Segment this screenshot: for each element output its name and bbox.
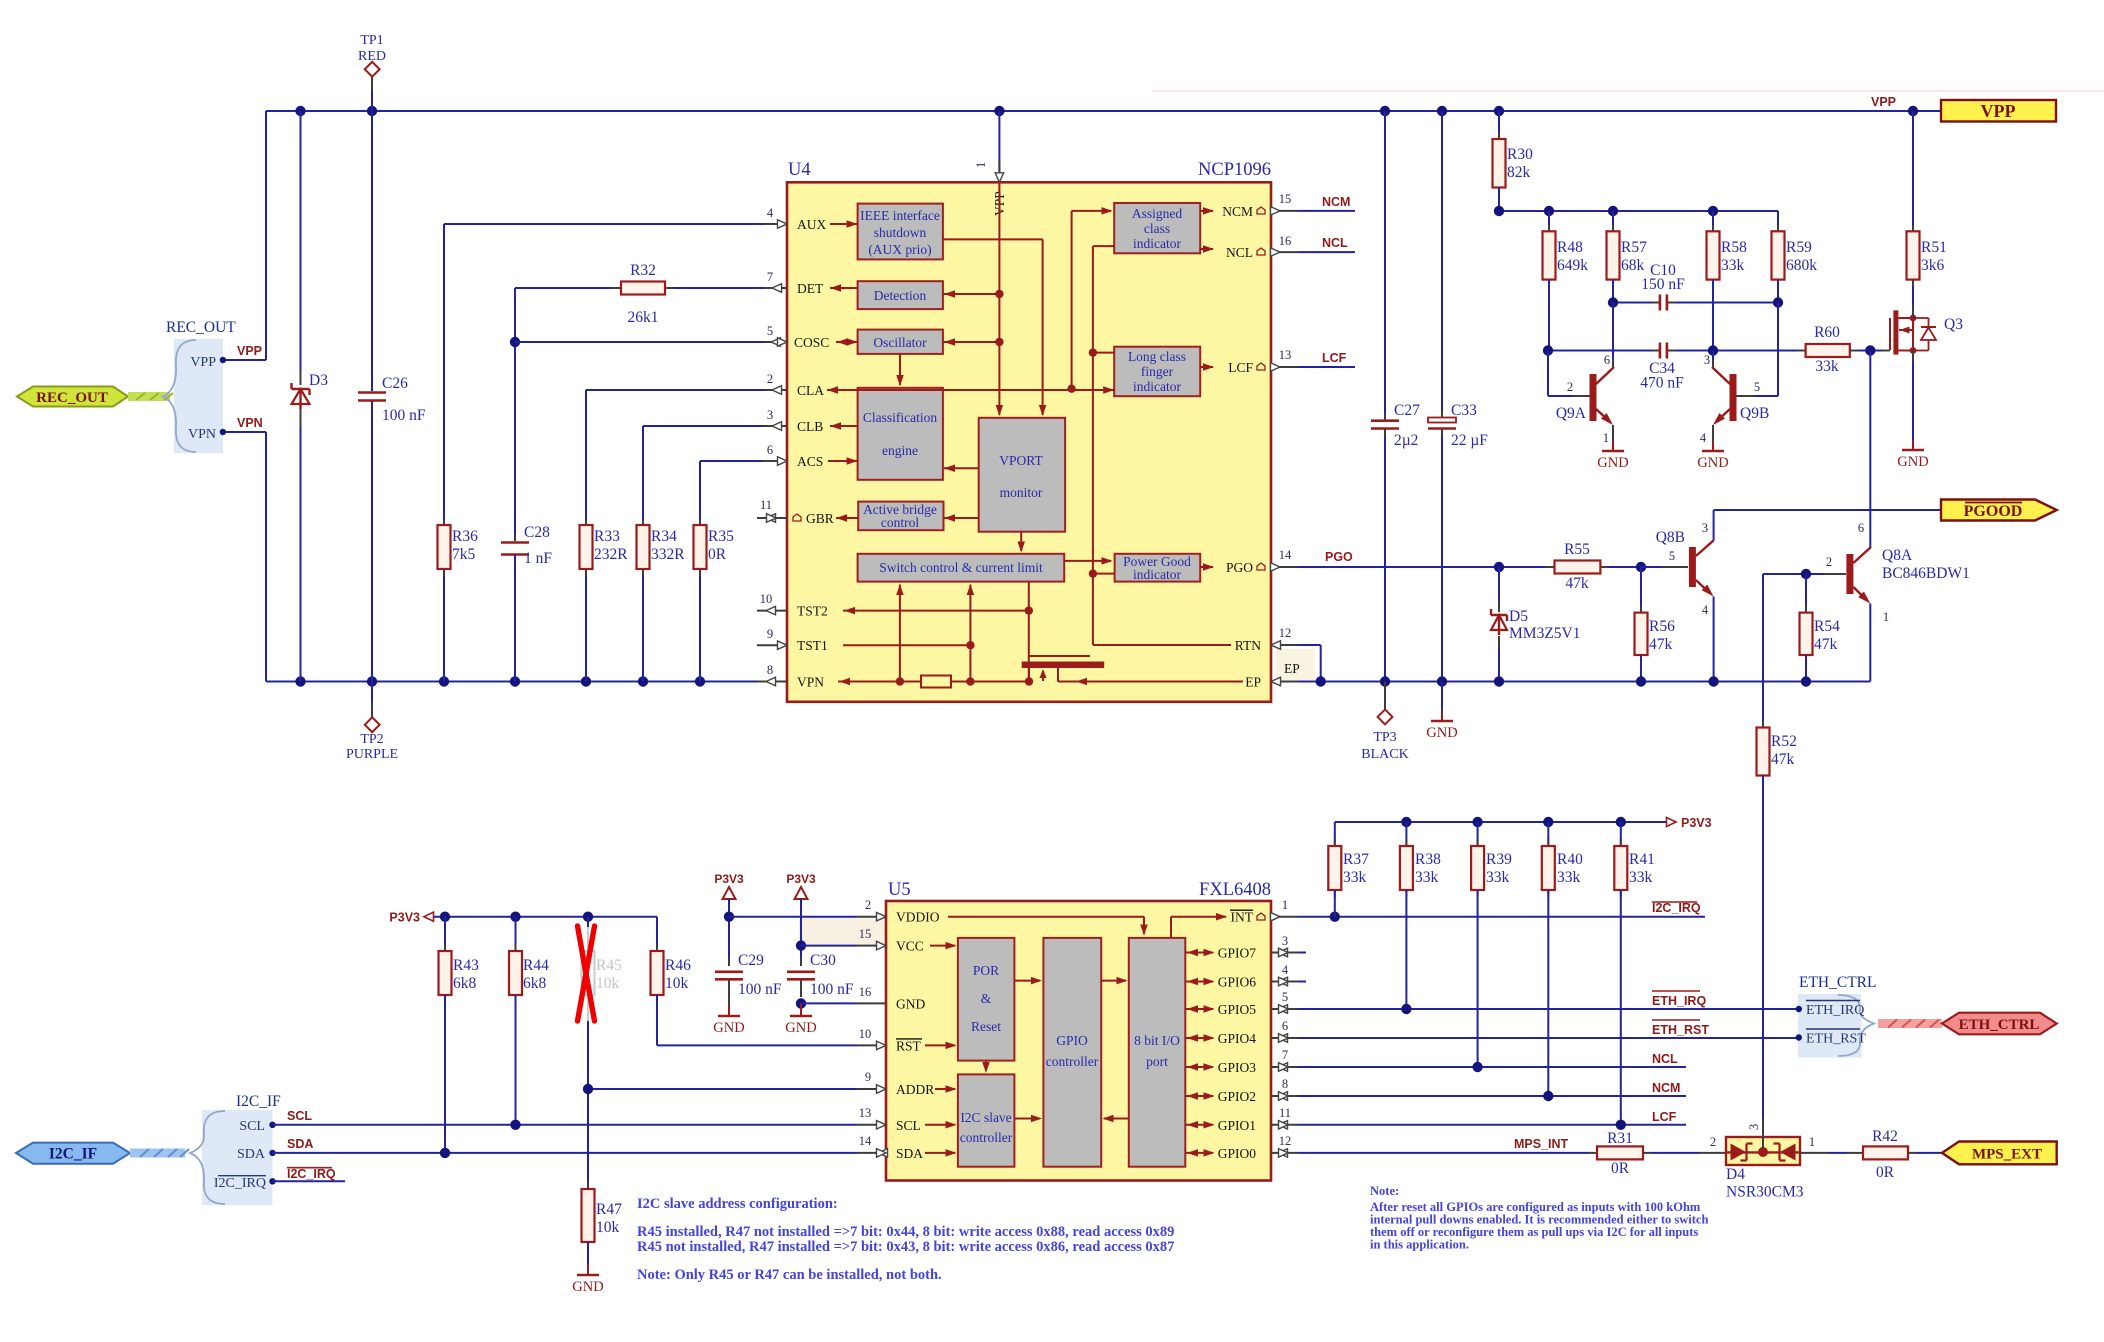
svg-text:8: 8 [767, 663, 773, 677]
svg-text:R35: R35 [708, 528, 734, 545]
svg-text:7k5: 7k5 [452, 546, 476, 563]
testpoint TP2 [371, 682, 373, 703]
svg-text:8: 8 [1282, 1077, 1288, 1091]
svg-text:indicator: indicator [1133, 567, 1181, 582]
pin 10 TST2 stub [757, 610, 787, 612]
svg-text:I2C slave address configuratio: I2C slave address configuration: [637, 1196, 838, 1212]
svg-text:U4: U4 [788, 160, 811, 180]
wire Q9A base drop [1547, 351, 1549, 397]
wire port to GPIO0 [1185, 1152, 1213, 1154]
svg-text:GND: GND [713, 1020, 744, 1036]
wire R42 to MPS_EXT [1908, 1152, 1916, 1154]
svg-text:IEEE interface: IEEE interface [860, 208, 940, 223]
block I2C slave controller [958, 1074, 1015, 1166]
svg-text:RTN: RTN [1235, 638, 1261, 653]
svg-text:R32: R32 [630, 262, 656, 279]
resistor R30 [1498, 111, 1500, 140]
internal MOSFET body arrow [1042, 671, 1044, 681]
wire P3V3 row right [1335, 821, 1666, 823]
resistor R40 [1547, 822, 1549, 846]
block VPORT monitor [979, 418, 1065, 532]
wire switch drive vertical left [899, 585, 901, 682]
wire SDA arrow [925, 1152, 955, 1154]
svg-text:VPN: VPN [797, 675, 824, 690]
pin 12 RTN stub [1271, 644, 1298, 646]
wire POR to GPIO controller [1014, 980, 1040, 982]
svg-text:R59: R59 [1786, 239, 1812, 256]
junction P3V3 R45 [583, 912, 593, 922]
svg-text:NCP1096: NCP1096 [1198, 160, 1271, 180]
wire NCL-side vertical [1093, 245, 1114, 247]
junction rail R34 [638, 676, 648, 686]
svg-text:649k: 649k [1557, 257, 1588, 274]
wire R38 to ETH_IRQ [1405, 890, 1407, 1009]
body diode Q3 [1913, 317, 1929, 319]
wire gate node down [1869, 351, 1871, 536]
wire R45 R47 vertical [587, 917, 589, 927]
pin 6 GPIO4 stub [1271, 1037, 1298, 1039]
svg-text:BC846BDW1: BC846BDW1 [1882, 565, 1970, 582]
wire VPN bottom rail left [266, 681, 757, 683]
resistor R60 [1806, 344, 1850, 357]
pin 10 RST stub [857, 1044, 886, 1046]
svg-text:R51: R51 [1921, 239, 1947, 256]
junction top rail D3 [295, 106, 305, 116]
pin 7 GPIO3 stub [1271, 1066, 1298, 1068]
resistor R54 vertical [1805, 574, 1807, 613]
resistor R42 [1863, 1146, 1908, 1159]
wire ACS to Classification [828, 460, 858, 462]
junction rail Q8B emitter [1708, 676, 1718, 686]
svg-text:&: & [981, 991, 992, 1006]
svg-text:NCM: NCM [1322, 195, 1350, 209]
svg-text:33k: 33k [1721, 257, 1745, 274]
block Long class finger indicator [1114, 347, 1200, 397]
svg-text:P3V3: P3V3 [714, 872, 744, 886]
power arrow P3V3 at C29 [723, 887, 736, 899]
junction P3V3 R41 [1616, 817, 1626, 827]
svg-text:9: 9 [767, 627, 773, 641]
svg-text:DET: DET [797, 281, 824, 296]
svg-text:NSR30CM3: NSR30CM3 [1726, 1184, 1804, 1201]
wire gate vertical TST2 [1028, 582, 1030, 682]
wire LCF output [1200, 366, 1213, 368]
pin 11 GBR stub [757, 517, 787, 519]
svg-text:Note: Only R45 or R47 can be i: Note: Only R45 or R47 can be installed, … [637, 1267, 942, 1283]
wire R31 to D4 [1643, 1152, 1651, 1154]
diode D3 vertical wire [300, 111, 302, 371]
svg-text:REC_OUT: REC_OUT [36, 390, 108, 406]
junction rail R36 [439, 676, 449, 686]
wire R48 to C34 node [1548, 280, 1550, 351]
wire R43 to SDA [444, 995, 446, 1153]
svg-text:R37: R37 [1343, 851, 1369, 868]
svg-text:GND: GND [896, 996, 925, 1011]
wire R34 vertical [642, 426, 644, 525]
pin 9 TST1 stub [757, 644, 787, 646]
wire C10 row [1613, 302, 1652, 304]
junction rail R57 [1608, 206, 1618, 216]
svg-text:11: 11 [760, 498, 772, 512]
junction rail R56 [1636, 676, 1646, 686]
cable REC_OUT [128, 392, 170, 401]
junction rail D5 [1494, 676, 1504, 686]
diode D3 [300, 370, 302, 385]
svg-text:2: 2 [1710, 1135, 1716, 1149]
svg-text:10k: 10k [596, 975, 620, 992]
svg-text:232R: 232R [594, 546, 628, 563]
svg-text:U5: U5 [888, 880, 911, 900]
junction rail C27/TP3 [1380, 676, 1390, 686]
svg-text:VPP: VPP [1981, 101, 2016, 121]
wire CLB from Classification [830, 425, 858, 427]
diode D4 right element [1780, 1144, 1796, 1161]
svg-text:13: 13 [1279, 348, 1292, 362]
junction rail C28 [510, 676, 520, 686]
svg-text:33k: 33k [1486, 869, 1510, 886]
svg-text:R54: R54 [1814, 618, 1840, 635]
junction C10 left [1608, 297, 1618, 307]
svg-text:100 nF: 100 nF [810, 981, 854, 998]
junction top rail R30 [1494, 106, 1504, 116]
diode D4 body [1726, 1137, 1800, 1165]
wire EP internal [1058, 681, 1243, 683]
junction PGO R56 [1636, 562, 1646, 572]
sense resistor internal [921, 676, 951, 688]
wire VCC row [801, 945, 857, 947]
svg-text:TP3: TP3 [1373, 730, 1396, 745]
svg-text:5: 5 [767, 324, 773, 338]
diode D4 pin3 link [1762, 1118, 1764, 1148]
wire D4 to R42 [1800, 1152, 1828, 1154]
svg-text:10: 10 [760, 592, 773, 606]
pin 3 GPIO7 stub [1271, 952, 1298, 954]
svg-text:TP2: TP2 [360, 732, 383, 747]
junction P3V3 R38 [1401, 817, 1411, 827]
resistor R56 vertical [1640, 567, 1642, 613]
svg-text:I2C_IF: I2C_IF [49, 1146, 97, 1163]
svg-text:33k: 33k [1343, 869, 1367, 886]
wire VPORT to Classification [944, 467, 979, 469]
capacitor C33 wire [1441, 111, 1443, 416]
pin 11 GPIO1 stub [1271, 1124, 1298, 1126]
wire VPP left vertical [265, 111, 267, 360]
pin 5 GPIO5 stub [1271, 1008, 1298, 1010]
svg-text:C33: C33 [1451, 402, 1477, 419]
wire DET to COSC vertical [514, 288, 516, 540]
svg-text:Q3: Q3 [1944, 316, 1963, 333]
svg-text:ETH_RST: ETH_RST [1806, 1032, 1866, 1047]
ground Q9A [1612, 441, 1614, 451]
pin 6 ACS stub [763, 460, 787, 462]
svg-text:VPN: VPN [188, 427, 216, 442]
svg-text:controller: controller [960, 1130, 1013, 1145]
svg-text:R46: R46 [665, 957, 691, 974]
svg-text:R48: R48 [1557, 239, 1583, 256]
svg-text:6: 6 [1858, 521, 1864, 535]
pin 16 NCL stub [1271, 251, 1298, 253]
pin name GBR [793, 514, 801, 521]
junction COSC node [510, 337, 520, 347]
svg-text:RST: RST [896, 1038, 922, 1053]
resistor R41 [1620, 822, 1622, 846]
wire RTN to rail [1298, 644, 1321, 646]
connector REC_OUT flag [17, 387, 128, 407]
svg-text:CLB: CLB [797, 419, 823, 434]
wire R60 to gate node [1850, 350, 1858, 352]
svg-text:EP: EP [1284, 661, 1300, 676]
svg-text:control: control [881, 515, 919, 530]
svg-text:REC_OUT: REC_OUT [166, 319, 236, 336]
svg-text:100 nF: 100 nF [738, 981, 782, 998]
svg-text:VPP: VPP [190, 355, 216, 370]
svg-text:6: 6 [1282, 1019, 1288, 1033]
no-install cross R45 [578, 926, 595, 1021]
svg-text:GPIO3: GPIO3 [1218, 1060, 1257, 1075]
svg-text:13: 13 [859, 1106, 872, 1120]
svg-text:ETH_RST: ETH_RST [1652, 1023, 1709, 1037]
resistor R34 [642, 519, 644, 527]
wire RST row [657, 1044, 857, 1046]
resistor R46 [656, 917, 658, 952]
pin 4 GPIO6 stub [1271, 981, 1298, 983]
wire R35 vertical [699, 461, 701, 525]
svg-text:2: 2 [865, 898, 871, 912]
svg-text:GPIO2: GPIO2 [1218, 1089, 1256, 1104]
pin 1 INT stub [1271, 916, 1298, 918]
svg-text:NCL: NCL [1652, 1052, 1678, 1066]
svg-text:R60: R60 [1814, 324, 1840, 341]
svg-text:5: 5 [1282, 990, 1288, 1004]
svg-text:GND: GND [1426, 725, 1457, 741]
block Classification engine [858, 388, 943, 480]
junction rail R48 [1544, 206, 1554, 216]
IC U5 FXL6408 body [886, 901, 1271, 1181]
capacitor C28 [514, 534, 516, 541]
net flag MPS_EXT [1942, 1142, 2057, 1165]
block 8 bit IO port [1129, 938, 1186, 1167]
svg-text:9: 9 [865, 1070, 871, 1084]
capacitor C26 wire [371, 111, 373, 391]
pin 14 PGO stub [1271, 566, 1298, 568]
svg-text:332R: 332R [651, 546, 685, 563]
connector REC_OUT body [174, 339, 223, 453]
svg-text:47k: 47k [1649, 636, 1673, 653]
diode D4 left element [1731, 1144, 1747, 1161]
svg-text:P3V3: P3V3 [389, 911, 420, 925]
capacitor C10 [1659, 295, 1662, 311]
svg-text:150 nF: 150 nF [1641, 276, 1685, 293]
svg-text:GPIO0: GPIO0 [1218, 1146, 1257, 1161]
capacitor C27 wire [1384, 111, 1386, 419]
power flag VPP [1941, 100, 2056, 122]
wire SCL row [273, 1124, 858, 1126]
junction top rail C27 [1380, 106, 1390, 116]
net flag PGOOD [1941, 500, 2057, 521]
svg-text:NCL: NCL [1322, 236, 1348, 250]
svg-text:GND: GND [1697, 455, 1728, 471]
resistor R32 [515, 287, 612, 289]
junction rail R33 [581, 676, 591, 686]
wire VDDIO row right segment [729, 916, 857, 918]
wire R41 to LCF [1620, 890, 1622, 1125]
svg-text:1 nF: 1 nF [524, 550, 552, 567]
svg-text:D5: D5 [1509, 608, 1528, 625]
junction P3V3 R39 [1472, 817, 1482, 827]
wire INT internal [1170, 917, 1172, 938]
wire TST2 internal [843, 610, 1029, 612]
svg-text:CLA: CLA [797, 383, 824, 398]
junction SCL R44 [510, 1120, 520, 1130]
pin 8 GPIO2 stub [1271, 1095, 1298, 1097]
wire C29 vertical [728, 899, 730, 965]
svg-text:470 nF: 470 nF [1640, 375, 1684, 392]
wire VDDIO internal [948, 916, 1144, 918]
wire ETH_IRQ row [1298, 1008, 1799, 1010]
resistor R57 [1612, 211, 1614, 232]
wire NCL stub right [1298, 251, 1355, 253]
diode D4 center link [1726, 1151, 1800, 1153]
svg-text:15: 15 [859, 927, 872, 941]
wire SCL arrow [925, 1124, 955, 1126]
junction rail R35 [695, 676, 705, 686]
svg-text:ETH_CTRL: ETH_CTRL [1959, 1017, 2040, 1033]
svg-text:33k: 33k [1629, 869, 1653, 886]
svg-text:PURPLE: PURPLE [346, 747, 398, 762]
svg-text:R43: R43 [453, 957, 479, 974]
svg-text:R52: R52 [1771, 733, 1797, 750]
svg-text:6k8: 6k8 [453, 975, 477, 992]
svg-text:R58: R58 [1721, 239, 1747, 256]
pin 14 SDA stub [857, 1152, 886, 1154]
svg-text:5: 5 [1754, 380, 1760, 394]
wire Q3 source up [1912, 280, 1914, 318]
capacitor C26 [358, 391, 386, 394]
wire base rail y211 [1499, 210, 1778, 212]
ground at C33 rail [1441, 682, 1443, 711]
wire switch drive vertical TST1 [969, 585, 971, 682]
wire GND row [801, 1002, 857, 1004]
svg-text:VPP: VPP [1871, 95, 1896, 109]
svg-text:5: 5 [1669, 549, 1675, 563]
pin 12 GPIO0 stub [1271, 1152, 1298, 1154]
svg-text:I2C_IF: I2C_IF [236, 1093, 281, 1110]
svg-text:BLACK: BLACK [1361, 747, 1408, 762]
svg-text:4: 4 [1702, 603, 1709, 617]
svg-text:47k: 47k [1814, 636, 1838, 653]
svg-text:MPS_INT: MPS_INT [1514, 1137, 1569, 1151]
wire port to GPIO controller [1104, 1118, 1129, 1120]
wire LCF stub right [1298, 366, 1355, 368]
svg-text:I2C_IRQ: I2C_IRQ [1652, 901, 1701, 915]
resistor R39 [1477, 822, 1479, 846]
svg-text:Reset: Reset [971, 1019, 1001, 1034]
wire VPN left vertical [265, 432, 267, 682]
resistor R48 [1548, 211, 1550, 232]
pin ETH_IRQ of ETH_CTRL [1796, 1006, 1802, 1012]
junction Q8A base R54 [1801, 569, 1811, 579]
wire AUX to IEEE block [830, 223, 858, 225]
svg-text:shutdown: shutdown [874, 225, 927, 240]
svg-text:class: class [1144, 221, 1170, 236]
svg-text:47k: 47k [1771, 751, 1795, 768]
junction rail R54 [1801, 676, 1811, 686]
svg-text:P3V3: P3V3 [1681, 816, 1712, 830]
wire R36 vertical [443, 224, 445, 525]
pin 8 VPN stub [757, 681, 787, 683]
internal MOSFET gate [1029, 655, 1090, 657]
svg-text:SCL: SCL [287, 1109, 312, 1123]
wire NCM stub right [1298, 210, 1355, 212]
junction VPP to Detection [995, 290, 1003, 298]
wire R37 vertical [1334, 822, 1336, 846]
svg-text:4: 4 [767, 206, 774, 220]
pin 15 VCC stub [857, 945, 886, 947]
svg-text:indicator: indicator [1133, 236, 1181, 251]
wire Oscillator to Classification [899, 354, 901, 385]
svg-text:GPIO4: GPIO4 [1218, 1031, 1257, 1046]
svg-text:in this application.: in this application. [1370, 1238, 1469, 1252]
svg-text:68k: 68k [1621, 257, 1645, 274]
wire TST1 internal [843, 644, 970, 646]
internal MOSFET drain stub [1028, 668, 1030, 682]
svg-text:10k: 10k [596, 1219, 620, 1236]
svg-text:C29: C29 [738, 952, 764, 969]
wire VPP internal vertical [998, 182, 1000, 415]
svg-text:3: 3 [1704, 353, 1710, 367]
svg-text:12: 12 [1279, 626, 1292, 640]
svg-text:SDA: SDA [237, 1147, 266, 1162]
resistor R35 [699, 519, 701, 527]
junction top rail R51 [1908, 106, 1918, 116]
wire R57 to C10 node [1612, 280, 1614, 303]
svg-text:Detection: Detection [874, 288, 927, 303]
svg-text:33k: 33k [1415, 869, 1439, 886]
svg-text:VPN: VPN [237, 416, 263, 430]
svg-text:R56: R56 [1649, 618, 1675, 635]
svg-text:3: 3 [767, 408, 773, 422]
wire R40 to NCM [1547, 890, 1549, 1096]
svg-text:Q9B: Q9B [1740, 405, 1769, 422]
junction C34 left R48 [1543, 345, 1553, 355]
svg-text:SDA: SDA [287, 1137, 313, 1151]
resistor R59 [1777, 211, 1779, 232]
resistor R44 [515, 917, 517, 952]
svg-text:R47: R47 [596, 1201, 622, 1218]
wire POR to I2C slave [985, 1061, 987, 1071]
wire port to GPIO3 [1185, 1066, 1213, 1068]
junction C10 right [1773, 297, 1783, 307]
pin 3 CLB stub [763, 425, 787, 427]
svg-text:ETH_IRQ: ETH_IRQ [1806, 1003, 1864, 1018]
svg-text:16: 16 [859, 985, 872, 999]
wire VPP from REC_OUT [223, 359, 266, 361]
svg-text:Note:: Note: [1370, 1184, 1399, 1198]
junction P3V3 R44 [510, 912, 520, 922]
svg-text:AUX: AUX [797, 217, 826, 232]
pin 2 VDDIO stub [857, 916, 886, 918]
transistor Q8A [1763, 573, 1806, 575]
svg-text:Q9A: Q9A [1556, 405, 1587, 422]
wire I2C_IRQ stub [273, 1180, 346, 1182]
junction LCF R41 [1616, 1120, 1626, 1130]
wire NCM output [1200, 210, 1213, 212]
resistor R38 [1405, 822, 1407, 846]
svg-text:monitor: monitor [1000, 485, 1043, 500]
svg-text:R45: R45 [596, 957, 622, 974]
svg-text:GPIO1: GPIO1 [1218, 1118, 1256, 1133]
svg-text:33k: 33k [1557, 869, 1581, 886]
